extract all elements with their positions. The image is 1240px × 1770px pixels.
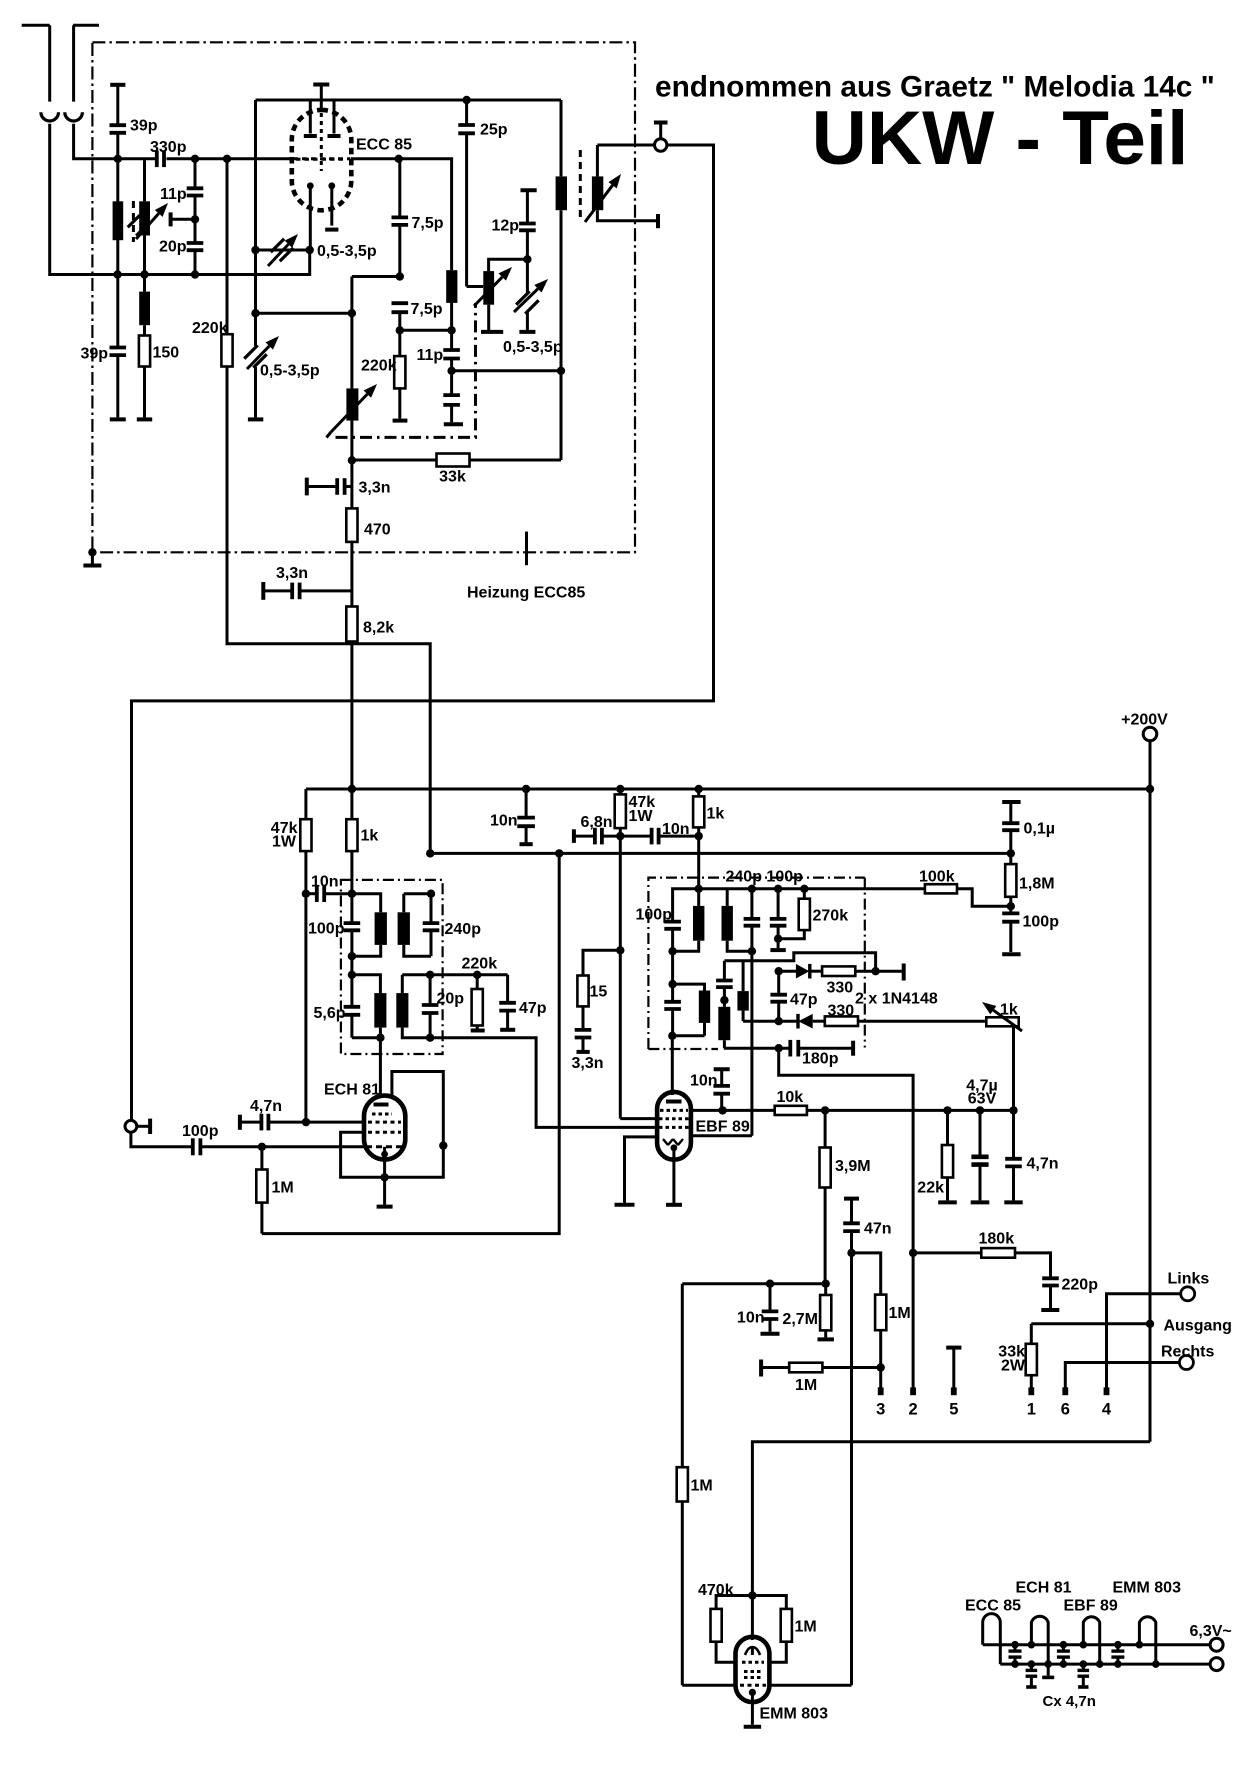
svg-text:180k: 180k [979,1231,1015,1248]
svg-text:1,8M: 1,8M [1019,876,1055,893]
svg-text:100p: 100p [636,907,673,924]
svg-text:ECC 85: ECC 85 [965,1598,1021,1615]
svg-text:39p: 39p [81,346,109,363]
svg-text:EBF 89: EBF 89 [1064,1598,1118,1615]
svg-text:1k: 1k [707,806,725,823]
svg-text:1W: 1W [629,808,654,825]
svg-text:1M: 1M [272,1180,294,1197]
svg-text:Rechts: Rechts [1161,1344,1214,1361]
svg-text:1k: 1k [361,828,379,845]
svg-text:0,5-3,5p: 0,5-3,5p [317,243,377,260]
svg-text:22k: 22k [917,1180,944,1197]
svg-text:3,3n: 3,3n [359,480,391,497]
svg-text:1M: 1M [889,1305,911,1322]
svg-text:240p: 240p [445,921,482,938]
svg-text:4: 4 [1102,1401,1112,1419]
svg-text:33k: 33k [439,469,466,486]
svg-text:3: 3 [876,1401,885,1419]
svg-text:20p: 20p [159,239,187,256]
svg-text:270k: 270k [813,908,849,925]
svg-text:10n: 10n [311,874,339,891]
svg-text:100p: 100p [1023,914,1060,931]
svg-text:3,3n: 3,3n [572,1055,604,1072]
svg-text:6,8n: 6,8n [581,814,613,831]
svg-text:7,5p: 7,5p [411,301,443,318]
svg-text:0,5-3,5p: 0,5-3,5p [260,363,320,380]
svg-text:220k: 220k [361,358,397,375]
svg-text:EMM 803: EMM 803 [760,1706,829,1723]
svg-text:8,2k: 8,2k [363,620,394,637]
svg-text:6: 6 [1061,1401,1070,1419]
svg-text:100p: 100p [308,921,345,938]
svg-text:5: 5 [949,1401,958,1419]
svg-text:7,5p: 7,5p [412,215,444,232]
svg-text:180p: 180p [802,1051,839,1068]
svg-text:4,7n: 4,7n [250,1098,282,1115]
svg-text:11p: 11p [160,186,187,203]
svg-text:220p: 220p [1062,1277,1099,1294]
svg-text:220k: 220k [462,956,498,973]
svg-text:10k: 10k [777,1089,804,1106]
svg-text:100k: 100k [919,869,955,886]
svg-text:ECH 81: ECH 81 [1016,1580,1072,1597]
svg-text:2: 2 [909,1401,918,1419]
svg-text:0,5-3,5p: 0,5-3,5p [503,339,563,356]
svg-text:220k: 220k [192,320,228,337]
svg-text:1k: 1k [1000,1002,1018,1019]
svg-text:39p: 39p [130,118,158,135]
svg-text:2 x 1N4148: 2 x 1N4148 [855,991,938,1008]
svg-text:15: 15 [590,984,608,1001]
svg-text:3,9M: 3,9M [835,1158,871,1175]
svg-text:EBF 89: EBF 89 [696,1119,750,1136]
svg-text:Heizung ECC85: Heizung ECC85 [467,585,585,602]
svg-text:+200V: +200V [1121,712,1168,729]
svg-text:20p: 20p [437,991,465,1008]
svg-text:470: 470 [364,522,391,539]
svg-text:2,7M: 2,7M [782,1311,818,1328]
svg-text:3,3n: 3,3n [276,565,308,582]
svg-text:47p: 47p [790,992,818,1009]
svg-text:1M: 1M [795,1619,817,1636]
svg-text:240p 100p: 240p 100p [726,869,804,886]
svg-text:6,3V~: 6,3V~ [1190,1623,1232,1640]
svg-text:330: 330 [827,980,854,997]
svg-text:47p: 47p [519,1000,547,1017]
svg-text:UKW - Teil: UKW - Teil [812,96,1189,181]
svg-text:100p: 100p [182,1123,219,1140]
svg-text:1M: 1M [691,1478,713,1495]
svg-text:1M: 1M [795,1377,817,1394]
svg-text:150: 150 [153,345,180,362]
svg-text:0,1µ: 0,1µ [1024,821,1055,838]
svg-text:Links: Links [1168,1271,1210,1288]
svg-text:63V: 63V [968,1091,997,1108]
svg-text:Cx 4,7n: Cx 4,7n [1043,1693,1096,1710]
svg-text:330p: 330p [150,139,187,156]
svg-text:5,6p: 5,6p [314,1005,346,1022]
svg-text:12p: 12p [492,218,520,235]
svg-text:EMM 803: EMM 803 [1113,1580,1182,1597]
svg-text:10n: 10n [662,821,690,838]
svg-text:10n: 10n [690,1073,718,1090]
svg-text:10n: 10n [490,813,518,830]
svg-text:4,7n: 4,7n [1027,1156,1059,1173]
svg-text:10n: 10n [737,1310,765,1327]
svg-text:1: 1 [1027,1401,1036,1419]
svg-text:47n: 47n [864,1221,892,1238]
svg-text:11p: 11p [417,347,444,364]
svg-text:ECH 81: ECH 81 [324,1082,380,1099]
svg-text:ECC 85: ECC 85 [356,137,412,154]
svg-text:1W: 1W [272,834,297,851]
svg-text:Ausgang: Ausgang [1164,1318,1232,1335]
svg-text:330: 330 [828,1003,855,1020]
svg-text:2W: 2W [1001,1358,1026,1375]
svg-text:25p: 25p [480,122,508,139]
